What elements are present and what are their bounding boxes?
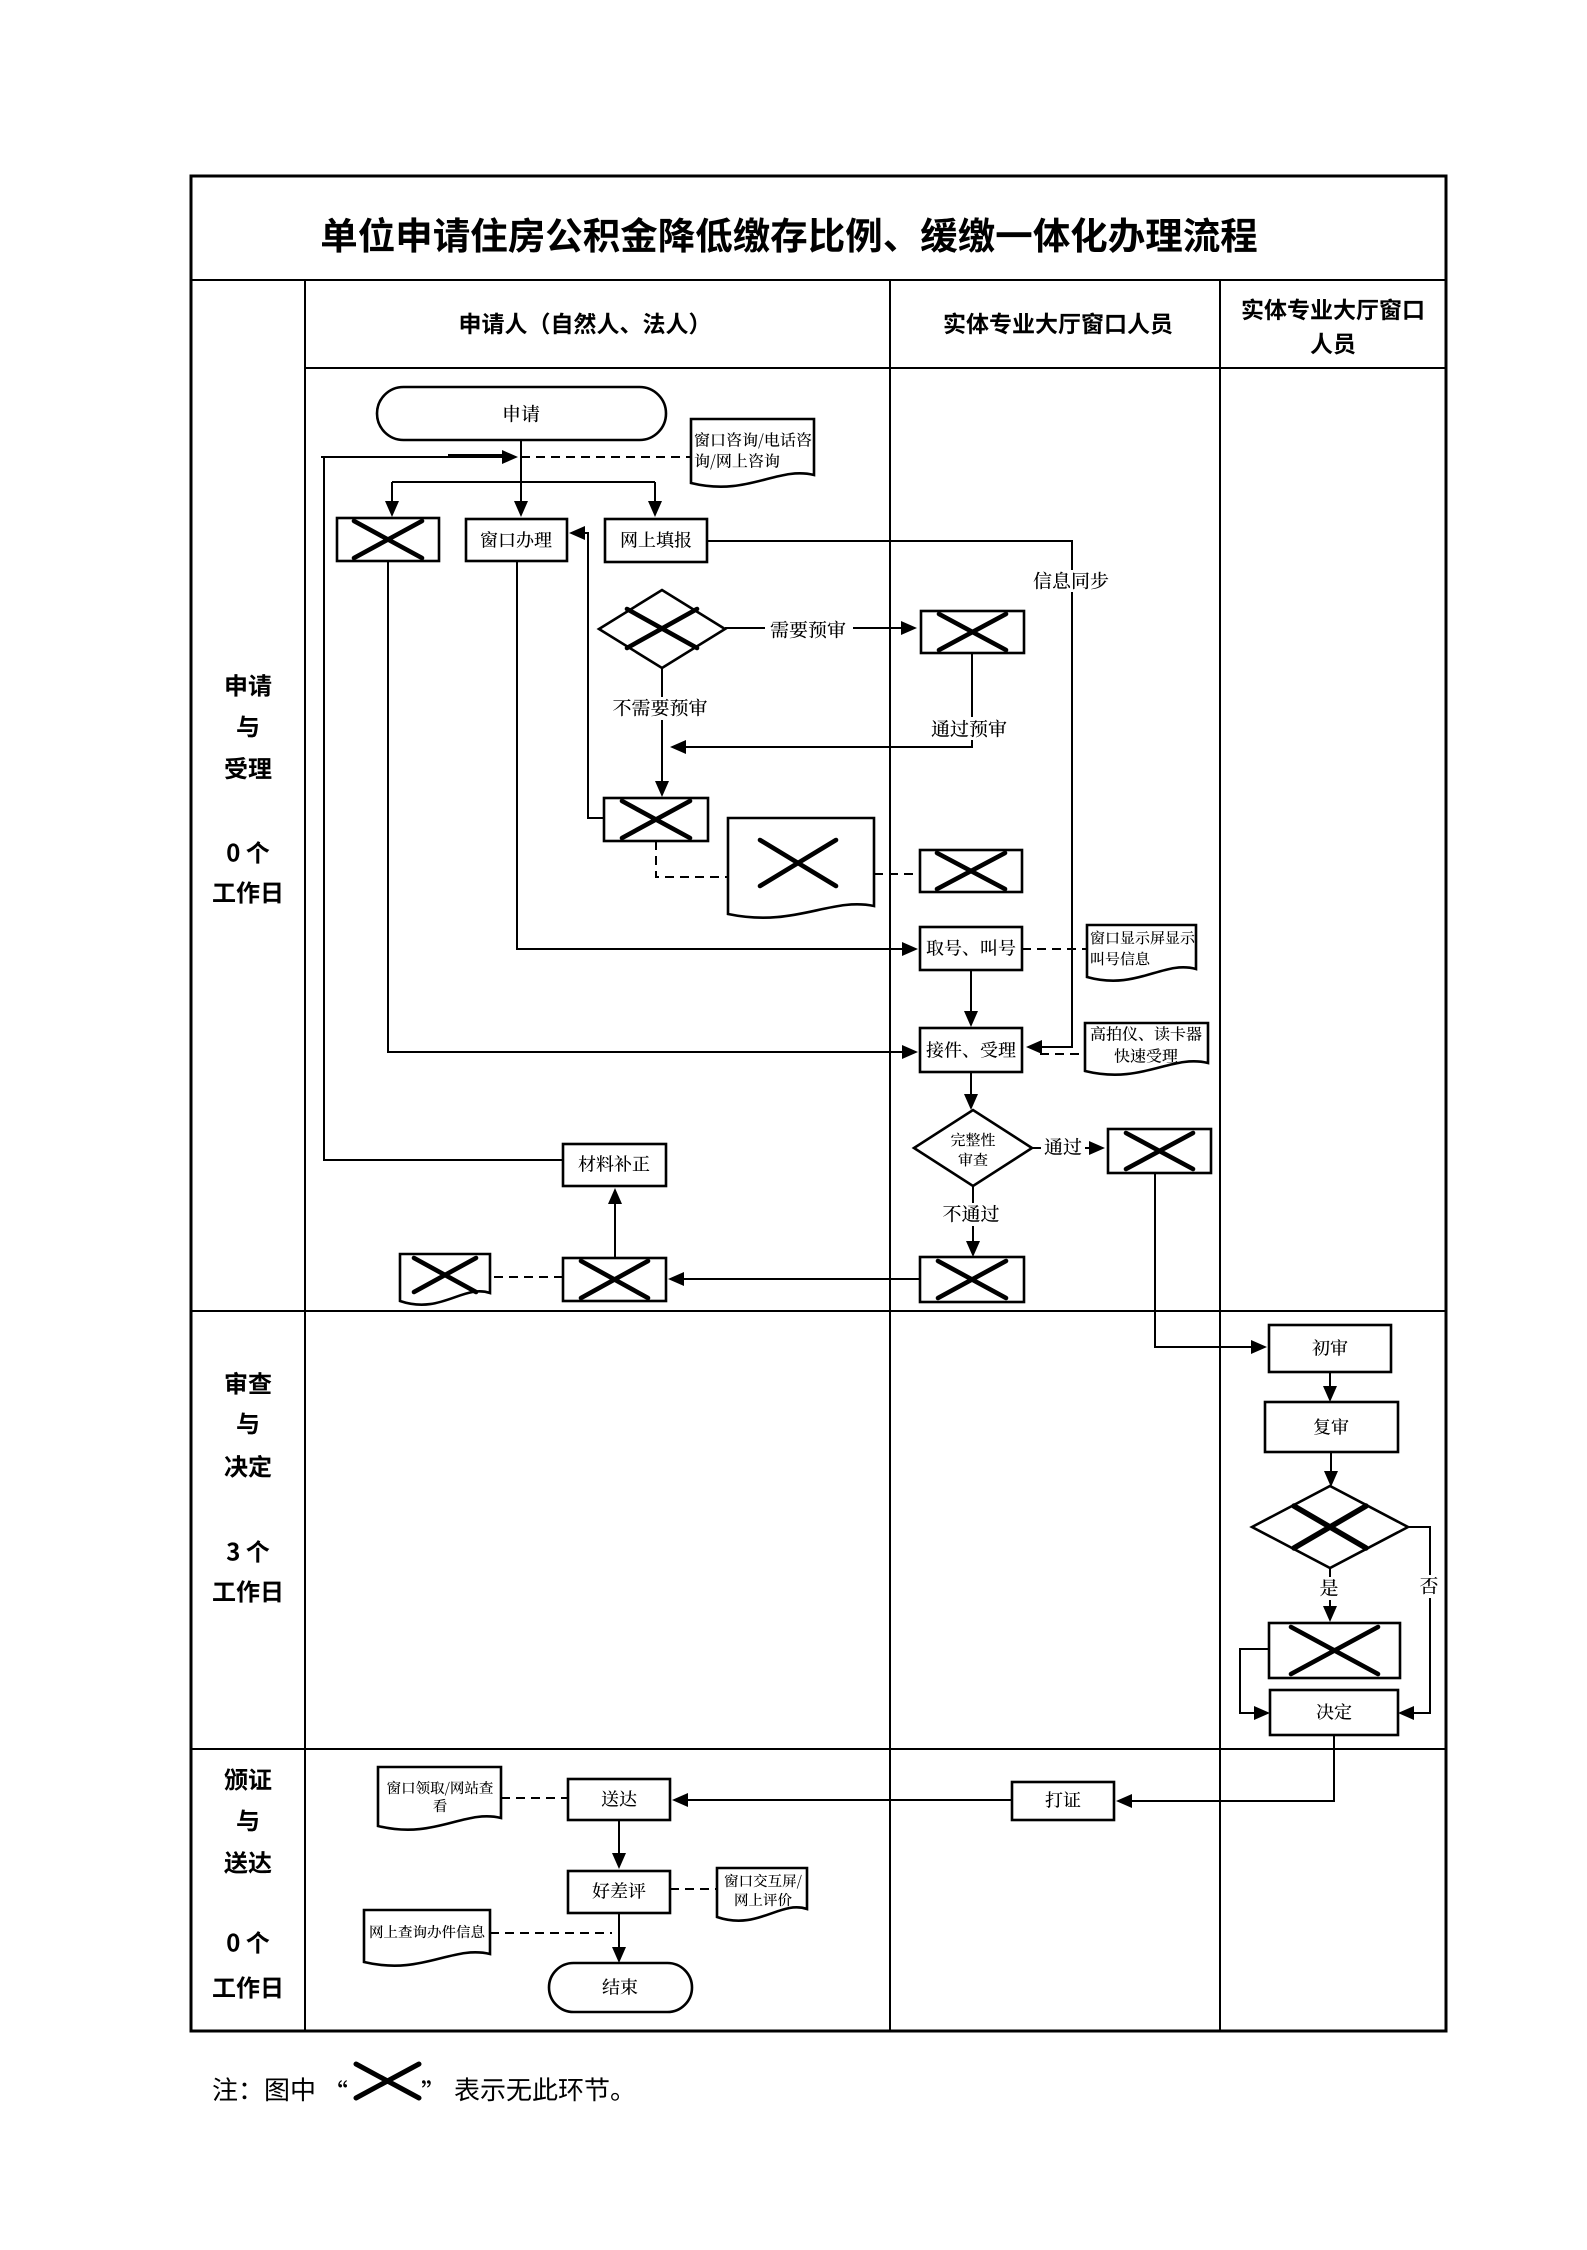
stage label 颁证与送达 送达 — [224, 1851, 271, 1874]
stage label 颁证与送达 与 — [237, 1810, 258, 1832]
column divider 2-3 — [889, 280, 891, 2031]
header col2 申请人 — [461, 312, 697, 334]
wire X-box2 to 窗口办理 arrow — [569, 526, 604, 818]
wire 通过预审 return — [670, 653, 972, 754]
stage label 颁证与送达 工作日 — [213, 1976, 280, 1998]
node 申请 (start stadium) — [377, 387, 666, 440]
dashed wire X-box4 to X-document — [490, 1276, 563, 1278]
wire left return into junction with arrow — [321, 450, 518, 464]
X-box7 (no step) — [1269, 1623, 1400, 1678]
dashed wire callout to 接件受理 — [1040, 1053, 1085, 1055]
arrow 取号 to 接件 — [964, 970, 978, 1027]
callout 高拍仪、读卡器快速受理 — [1085, 1023, 1208, 1075]
callout 窗口显示屏显示叫号信息 — [1087, 925, 1196, 981]
label 通过预审 — [926, 717, 1014, 740]
node 网上填报 — [605, 519, 707, 562]
dashed wire X-box2 to document — [656, 841, 728, 877]
label 不通过 — [940, 1203, 1006, 1226]
node 初审 — [1269, 1325, 1391, 1372]
wire 否 branch — [1398, 1527, 1430, 1720]
X-box3 (no step) — [920, 850, 1022, 892]
callout 网上查询办件信息 — [364, 1910, 490, 1966]
stage label 申请与受理 与 — [237, 716, 258, 738]
node 结束 (end stadium) — [549, 1963, 692, 2012]
column divider stage — [304, 280, 306, 2031]
X-box5 (no step) — [1108, 1129, 1211, 1173]
X-box1 (no step) — [337, 518, 439, 561]
wire X-box7 loop to 决定 — [1240, 1649, 1270, 1720]
header row divider — [305, 367, 1446, 369]
decision diamond 完整性审查 — [914, 1110, 1032, 1186]
arrow into X-box1 — [385, 482, 399, 517]
section divider 2 — [191, 1748, 1446, 1750]
section divider 1 — [191, 1310, 1446, 1312]
X-document (no step) — [400, 1254, 490, 1305]
node 好差评 — [568, 1871, 670, 1913]
wire X-box5 to 初审 — [1155, 1173, 1267, 1354]
X-box4 (no step) — [563, 1258, 666, 1301]
node 送达 — [568, 1779, 670, 1820]
node 决定 — [1270, 1690, 1398, 1735]
dashed wire 好差评 to callout — [670, 1888, 717, 1890]
node 打证 — [1012, 1782, 1114, 1820]
node 复审 — [1265, 1402, 1398, 1452]
stage label 申请与受理 0 个 — [227, 841, 269, 864]
dashed wire callout to 送达 — [501, 1797, 568, 1799]
arrow 初审 to 复审 — [1323, 1372, 1337, 1402]
note text right — [422, 2077, 619, 2101]
label 信息同步 — [1029, 570, 1115, 592]
wire 打证 to 送达 — [672, 1793, 1012, 1807]
arrow into 网上填报 — [648, 482, 662, 517]
X-box2 (no step) — [604, 798, 708, 841]
callout 窗口领取/网站查看 — [378, 1767, 501, 1830]
stage label 颁证与送达 0 个 — [227, 1931, 269, 1954]
label 需要预审 — [765, 618, 853, 641]
dashed wire junction to consult callout — [521, 456, 691, 458]
document with X (no step) — [728, 818, 874, 918]
wire 需要预审 to X-box — [725, 621, 917, 635]
dashed wire 取号 to callout — [1022, 948, 1087, 950]
stage label 申请与受理 受理 — [225, 757, 271, 779]
title row divider — [191, 279, 1446, 281]
wire 通过 to X-box5 — [1032, 1141, 1105, 1155]
arrow 好差评 to 结束 — [612, 1913, 626, 1963]
arrow X-box4 up to 材料补正 — [608, 1188, 622, 1258]
table outer frame — [191, 176, 1446, 2031]
wire X-box6 to X-box4 — [668, 1272, 920, 1286]
wire 是 down — [1323, 1568, 1337, 1622]
label 通过 — [1041, 1136, 1085, 1159]
arrow 送达 to 好差评 — [612, 1820, 626, 1869]
node 材料补正 — [563, 1144, 666, 1186]
title text — [322, 217, 1257, 253]
wire branch distribution — [392, 481, 655, 483]
decision diamond review (no label) — [1252, 1486, 1408, 1568]
wire 不通过 down — [966, 1186, 980, 1257]
node 窗口办理 — [466, 519, 567, 561]
X-box6 (no step) — [920, 1257, 1024, 1302]
header col4 window staff line2 — [1311, 333, 1355, 355]
stage label 审查与决定 与 — [237, 1413, 258, 1435]
decision diamond 预审 (no step) — [599, 590, 725, 668]
arrow 复审 to diamond — [1324, 1452, 1338, 1487]
wire 网上填报 to 接件受理 (信息同步) — [707, 541, 1072, 1054]
stage label 申请与受理 申请 — [226, 674, 271, 697]
X-box pre-review (no step) — [921, 611, 1024, 653]
stage label 审查与决定 决定 — [225, 1455, 272, 1478]
callout 窗口交互屏/网上评价 — [717, 1868, 807, 1921]
stage label 审查与决定 3 个 — [227, 1540, 270, 1563]
arrow into 窗口办理 — [514, 482, 528, 517]
node 接件、受理 — [920, 1028, 1022, 1072]
header col3 window staff — [945, 312, 1172, 334]
wire stadium bottom to junction — [520, 440, 522, 482]
wire X-box1 to 接件受理 — [388, 561, 918, 1059]
stage label 颁证与送达 颁证 — [225, 1768, 272, 1791]
label 是 — [1319, 1577, 1341, 1600]
wire diamond down 不需要预审 — [655, 668, 669, 797]
dashed wire document to X-box3 — [874, 873, 920, 875]
node 取号、叫号 — [920, 927, 1022, 970]
wire 窗口办理 to 取号叫号 — [517, 561, 918, 956]
stage label 申请与受理 工作日 — [213, 881, 280, 903]
label 不需要预审 — [607, 697, 715, 720]
label 否 — [1419, 1575, 1441, 1598]
arrow 接件 to 完整性审查 — [964, 1072, 978, 1110]
note text left — [213, 2077, 347, 2101]
callout 窗口咨询/电话咨询/网上咨询 — [691, 419, 814, 487]
stage label 审查与决定 工作日 — [213, 1580, 280, 1602]
column divider 3-4 — [1219, 280, 1221, 2031]
stage label 审查与决定 审查 — [226, 1372, 272, 1395]
note X symbol — [356, 2064, 419, 2098]
header col4 window staff line1 — [1243, 298, 1423, 320]
wire 材料补正 to left return — [324, 457, 563, 1160]
wire 决定 to 打证 — [1116, 1735, 1334, 1808]
dashed wire callout to 好差评 line — [490, 1932, 612, 1934]
